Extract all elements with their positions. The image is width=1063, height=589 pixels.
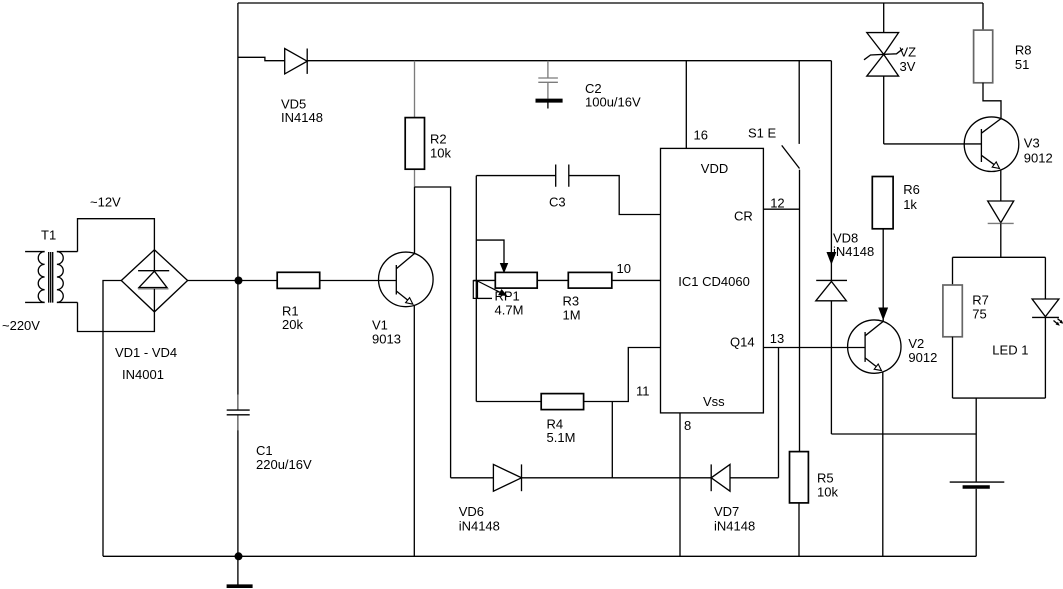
wire secondary bottom to bridge (78, 302, 155, 331)
resistor R8 (974, 3, 1001, 119)
svg-text:4.7M: 4.7M (495, 303, 524, 318)
resistor R1 (277, 272, 320, 288)
svg-text:12: 12 (770, 196, 784, 211)
wire R4 row (476, 401, 541, 403)
transformer T1 (25, 252, 77, 303)
resistor R4 (541, 394, 583, 410)
resistor R3 (568, 272, 612, 288)
svg-text:C3: C3 (549, 195, 566, 210)
svg-text:9012: 9012 (1024, 151, 1053, 166)
wire IC pin 8 (679, 413, 681, 556)
zener VZ (864, 3, 903, 144)
svg-text:R2: R2 (430, 132, 447, 147)
svg-text:10k: 10k (430, 146, 451, 161)
wire LED box bottom (953, 397, 1046, 399)
svg-text:16: 16 (694, 128, 708, 143)
svg-text:3V: 3V (900, 59, 916, 74)
svg-text:iN4148: iN4148 (459, 519, 500, 534)
svg-text:11: 11 (636, 384, 650, 399)
svg-text:10: 10 (617, 261, 631, 276)
resistor R2 (405, 61, 424, 187)
svg-text:iN4148: iN4148 (833, 244, 874, 259)
svg-text:R3: R3 (563, 294, 580, 309)
svg-text:C1: C1 (256, 443, 273, 458)
resistor R5 (790, 452, 809, 557)
wire bottom rail (103, 555, 976, 557)
svg-text:~220V: ~220V (2, 318, 40, 333)
transistor V2 (848, 320, 901, 373)
node junction (235, 277, 243, 285)
svg-text:R6: R6 (903, 182, 920, 197)
switch S1 (782, 61, 800, 452)
svg-text:iN4148: iN4148 (714, 519, 755, 534)
svg-text:5.1M: 5.1M (547, 430, 576, 445)
resistor R7 (943, 257, 962, 398)
svg-text:10k: 10k (817, 485, 838, 500)
svg-text:R5: R5 (817, 471, 834, 486)
svg-text:51: 51 (1015, 57, 1029, 72)
wire VZ to V3 base (884, 143, 982, 145)
wire IC pin 16 (685, 61, 687, 149)
wire VD6 VD7 row (451, 477, 779, 479)
wire left rail (237, 3, 239, 585)
wire RP1 wiper arrow (476, 240, 507, 272)
svg-text:S1 E: S1 E (748, 126, 777, 141)
svg-text:100u/16V: 100u/16V (585, 95, 641, 110)
svg-text:1k: 1k (903, 197, 917, 212)
diode VD8 (816, 61, 847, 434)
transistor V1 (379, 252, 434, 307)
svg-text:8: 8 (684, 418, 691, 433)
svg-text:LED 1: LED 1 (992, 343, 1028, 358)
svg-text:CR: CR (734, 209, 753, 224)
svg-text:V3: V3 (1024, 136, 1040, 151)
svg-text:R8: R8 (1015, 43, 1032, 58)
wire LED box top (953, 256, 1046, 258)
LED LED1 (1032, 257, 1063, 398)
svg-text:IN4001: IN4001 (122, 367, 164, 382)
potentiometer RP1 (473, 272, 537, 298)
svg-text:9012: 9012 (908, 350, 937, 365)
wire secondary top to bridge (78, 219, 155, 252)
svg-text:R7: R7 (972, 293, 989, 308)
wire IC pin 12 (763, 208, 799, 210)
wire RP1 box left edge (475, 176, 477, 402)
bridge rectifier VD1-VD4 (121, 250, 187, 312)
svg-text:V1: V1 (372, 318, 388, 333)
diode VD5 (285, 49, 308, 74)
svg-text:VDD: VDD (701, 161, 728, 176)
svg-text:VD6: VD6 (459, 504, 484, 519)
wire bridge left to bottom rail (103, 281, 121, 557)
svg-text:Q14: Q14 (730, 335, 755, 350)
diode under V3 (988, 170, 1014, 257)
svg-text:220u/16V: 220u/16V (256, 457, 312, 472)
svg-text:RP1: RP1 (495, 289, 520, 304)
wire R3 to IC pin 10 (612, 279, 661, 281)
svg-text:VD7: VD7 (714, 504, 739, 519)
wire V2 collector from R6 (879, 229, 887, 322)
svg-text:V2: V2 (908, 336, 924, 351)
svg-text:~12V: ~12V (90, 195, 121, 210)
svg-text:VZ: VZ (900, 44, 917, 59)
wire IC pin 13 to V2 base (763, 347, 865, 349)
svg-text:IN4148: IN4148 (281, 110, 323, 125)
svg-text:9013: 9013 (372, 332, 401, 347)
svg-text:VD1 - VD4: VD1 - VD4 (115, 345, 177, 360)
transistor V3 (964, 117, 1019, 172)
IC U1 CD4060 (661, 148, 764, 413)
capacitor C3 (476, 165, 660, 215)
diode VD7 (711, 464, 730, 491)
wire V1 collector up (414, 187, 416, 254)
capacitor C2 (536, 61, 563, 109)
wire R2 jog to VD6 branch (415, 187, 451, 478)
wire top distribution (307, 60, 831, 62)
wire VD7 to pin 13 row (778, 348, 780, 478)
wire bridge right to node (188, 280, 278, 282)
capacitor C1 (227, 395, 250, 431)
svg-text:T1: T1 (41, 228, 56, 243)
wire V1 emitter down (413, 305, 415, 556)
diode VD6 (493, 464, 521, 491)
wire V2 emitter down (882, 372, 884, 557)
resistor R6 (872, 177, 893, 229)
wire R4 row to VD6 row (611, 402, 613, 478)
wire R4 to IC pin 11 (584, 348, 661, 402)
wire top rail (238, 2, 983, 4)
wire VD5 branch (238, 57, 285, 60)
svg-text:IC1 CD4060: IC1 CD4060 (678, 274, 750, 289)
wire R1 to V1 base (320, 280, 397, 282)
ground (227, 552, 253, 586)
svg-text:Vss: Vss (703, 394, 725, 409)
battery (950, 398, 1005, 556)
svg-text:13: 13 (770, 331, 784, 346)
wire RP1 to R3 (537, 279, 568, 281)
svg-text:75: 75 (972, 307, 986, 322)
svg-text:20k: 20k (282, 317, 303, 332)
svg-text:1M: 1M (563, 308, 581, 323)
wire V2 emitter row (831, 433, 976, 435)
